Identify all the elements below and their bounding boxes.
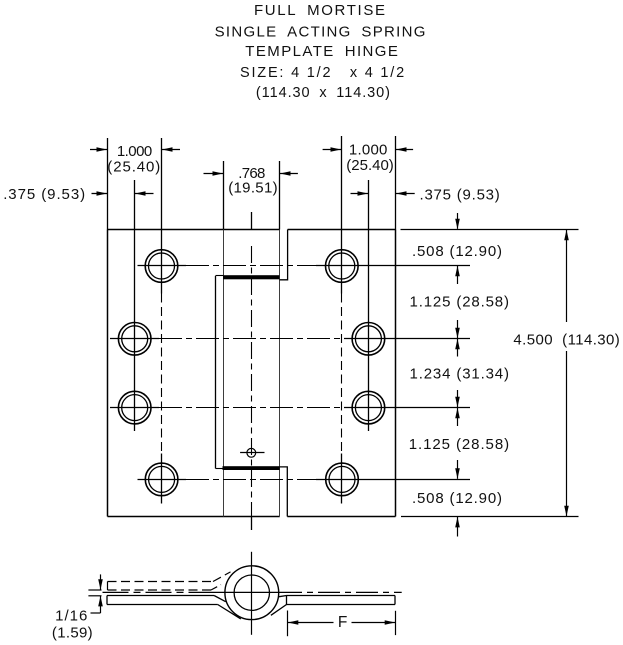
svg-text:4.500 (114.30): 4.500 (114.30) (513, 332, 619, 349)
dim .768 label (228, 165, 277, 197)
svg-text:FULL MORTISE: FULL MORTISE (254, 2, 385, 19)
stack arrow row4 down (455, 460, 460, 479)
hidden leaf top dashed (108, 581, 214, 583)
screw hole row3 left (118, 391, 151, 424)
row 3 centerline (110, 407, 470, 409)
svg-text:.508 (12.90): .508 (12.90) (412, 490, 502, 507)
spring tube outer left (215, 276, 217, 469)
svg-text:(19.51): (19.51) (228, 180, 277, 197)
hole column line inner left (134, 180, 136, 431)
row 2 centerline (110, 338, 470, 340)
stack arrow row1 up (455, 266, 460, 284)
spring tube step bottom (216, 468, 223, 470)
knuckle bar top (223, 275, 279, 279)
screw hole bottom right (326, 463, 359, 496)
screw hole top right (326, 250, 359, 283)
svg-text:F: F (338, 614, 347, 631)
hidden leaf end dashed (107, 582, 109, 591)
dim .768 arrow b (280, 171, 298, 176)
dim F extension right (395, 611, 397, 635)
svg-text:(114.30 x 114.30): (114.30 x 114.30) (256, 85, 390, 101)
hinge plate bottom edge right leaf (287, 516, 395, 518)
dim .375 left arrow a (92, 191, 108, 196)
hole column line inner right (368, 180, 370, 431)
hinge plate top edge left leaf (108, 229, 280, 231)
screw hole top left (145, 250, 178, 283)
stack arrow row2 up (455, 339, 460, 357)
dim 1.000 left arrow b (162, 147, 180, 152)
dim 1.000 right arrow a (323, 147, 341, 152)
dim 1/16 tick lower (88, 595, 101, 597)
hidden leaf taper upper dashed (213, 572, 231, 582)
dim 1.000 right label (346, 142, 394, 175)
svg-text:(1.59): (1.59) (52, 625, 93, 642)
stack arrow top edge (455, 213, 460, 229)
hole column line outer left (161, 138, 163, 504)
pin centerline (251, 212, 253, 530)
hinge plate left edge (107, 230, 109, 517)
knuckle bar bottom (223, 466, 280, 470)
dim 1.000 right arrow b (396, 147, 413, 152)
left leaf top edge (107, 596, 226, 602)
dim 1.000 left arrow a (90, 147, 107, 152)
spring channel right edge (279, 230, 281, 517)
extension line channel left (223, 161, 225, 230)
hidden leaf bottom dashed (108, 589, 212, 591)
right leaf bottom edge (271, 605, 395, 616)
knuckle vertical centerline (251, 552, 253, 635)
stack arrow bottom up (455, 517, 460, 537)
dim 1/16 arrow down (98, 574, 103, 589)
screw hole row2 right (352, 323, 385, 356)
svg-text:.508 (12.90): .508 (12.90) (412, 243, 502, 260)
svg-text:1/16: 1/16 (55, 607, 87, 624)
right leaf notch top (280, 230, 288, 280)
dim .375 left arrow b (135, 191, 154, 196)
screw hole bottom left (145, 463, 178, 496)
right leaf curl edge (286, 596, 288, 605)
hidden leaf taper lower dashed (211, 585, 221, 590)
dim .375 right arrow a (351, 191, 369, 196)
knuckle inner circle (234, 575, 269, 610)
knuckle outer circle (225, 566, 279, 620)
screw hole row3 right (352, 391, 385, 424)
stack arrow row3 down (455, 390, 460, 407)
svg-text:TEMPLATE HINGE: TEMPLATE HINGE (245, 43, 398, 60)
dim 1/16 tick upper (88, 589, 101, 591)
right leaf end (394, 596, 396, 605)
hinge plate bottom edge left leaf (108, 516, 280, 518)
svg-text:(25.40): (25.40) (107, 159, 160, 176)
svg-text:1.234 (31.34): 1.234 (31.34) (410, 366, 510, 383)
svg-text:1.000: 1.000 (117, 143, 152, 160)
dim F line right (352, 620, 396, 625)
extension line plate right edge (395, 136, 397, 230)
dim F extension left (287, 611, 289, 637)
svg-text:SINGLE ACTING SPRING: SINGLE ACTING SPRING (215, 23, 426, 40)
dim 1/16 arrow up with leader (91, 596, 103, 613)
screw hole row2 left (118, 323, 151, 356)
extension line channel right (279, 161, 281, 230)
dim 4.500 line lower (564, 351, 569, 516)
svg-text:.375 (9.53): .375 (9.53) (420, 187, 500, 204)
hinge plate right edge (395, 230, 397, 517)
dim 1.000 left label (107, 143, 160, 176)
dim .375 right arrow b (396, 191, 415, 196)
stack arrow row2 down (455, 320, 460, 338)
extension top edge right (401, 229, 579, 231)
spring adjustment hole (240, 448, 264, 457)
right leaf top edge (278, 596, 395, 597)
spring channel left edge (223, 230, 225, 517)
row 1 centerline (138, 265, 471, 267)
dim F line left (288, 620, 334, 625)
stack arrow row3 up (455, 408, 460, 426)
dim 4.500 line upper (564, 230, 569, 322)
row 4 centerline (138, 479, 471, 481)
left leaf bottom edge (107, 605, 241, 619)
svg-text:1.125 (28.58): 1.125 (28.58) (409, 436, 509, 453)
right leaf notch bottom (280, 467, 288, 517)
svg-text:1.125 (28.58): 1.125 (28.58) (410, 294, 510, 311)
extension line plate left edge (107, 138, 109, 230)
dim .768 arrow a (204, 171, 224, 176)
knuckle horizontal centerline (103, 591, 402, 593)
hinge plate top edge right leaf (288, 229, 396, 231)
svg-text:SIZE: 4 1/2 x 4 1/2: SIZE: 4 1/2 x 4 1/2 (240, 65, 404, 81)
dim 1/16 label (52, 607, 93, 641)
svg-text:(25.40): (25.40) (346, 157, 394, 174)
hole column line outer right (341, 136, 343, 504)
extension bottom edge right (401, 516, 579, 518)
left leaf end (106, 596, 108, 605)
svg-text:.375 (9.53): .375 (9.53) (3, 186, 85, 203)
svg-text:1.000: 1.000 (349, 142, 388, 159)
spring tube step top (216, 275, 224, 277)
